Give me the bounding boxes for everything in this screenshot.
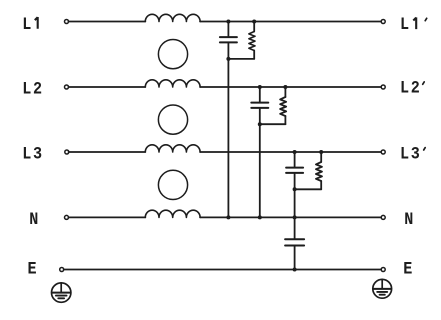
svg-text:L3: L3 xyxy=(400,143,422,164)
svg-text:L2: L2 xyxy=(22,79,44,100)
svg-text:E: E xyxy=(28,258,39,279)
svg-text:E: E xyxy=(403,259,414,280)
svg-text:L3: L3 xyxy=(22,143,44,164)
svg-text:L: L xyxy=(400,14,411,35)
svg-text:N: N xyxy=(29,209,40,230)
svg-text:N: N xyxy=(404,209,415,230)
svg-text:L: L xyxy=(22,14,33,35)
svg-text:L2: L2 xyxy=(400,77,422,98)
